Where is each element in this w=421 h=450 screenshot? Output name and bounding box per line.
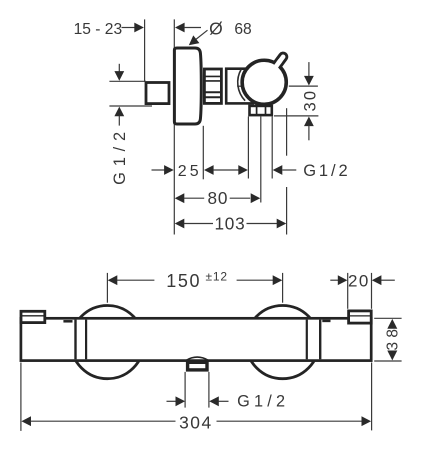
svg-text:68: 68 [234,21,251,38]
escutcheon circle left [71,306,144,379]
body [226,69,253,104]
dim 103 arrow left [175,219,185,229]
ext line escutcheon face [173,19,175,234]
dim 20 arrow left-pointing [372,275,382,285]
wall G1/2 upper shaft [118,64,120,73]
joint right b [319,320,321,360]
ext 150 left [106,273,108,303]
wall pipe [146,83,169,104]
arrow left-pointing [209,396,219,406]
escutcheon circle right [246,306,319,379]
dim 30 arrow down [304,76,314,86]
arrow right-pointing [176,396,186,406]
svg-text:25: 25 [178,163,202,180]
ext line outlet center [260,117,262,203]
adapter rib 1 [204,75,222,77]
svg-text:G1/2: G1/2 [237,393,289,411]
svg-text:150: 150 [166,271,201,291]
dim 103 arrow right [277,219,287,229]
outlet side view [250,106,272,115]
step dash right [322,320,330,323]
ext outlet right [208,372,210,408]
adapter rib 3 [204,91,222,93]
stub merge eraser [271,59,282,71]
ext line outlet left [247,117,249,179]
dim 30 upper shaft [308,62,310,76]
escutcheon Ø68 [174,48,201,124]
dim 38 arrow up [387,319,397,329]
dim 15-23 right arrow [175,23,185,33]
ext line escutcheon right [202,126,204,180]
step dash left [63,320,72,323]
dim 20 arrow right-pointing [338,275,348,285]
outlet dim tail [282,169,296,171]
outlet divider 2 [265,107,267,115]
body end arc [238,69,245,101]
handle circle [242,60,286,104]
svg-text:38: 38 [385,325,402,351]
wall G1/2 arrow down [114,71,124,81]
outlet front view [188,362,207,370]
dim 38 ext bottom [374,360,401,362]
dim 30 arrow up [304,117,314,127]
svg-text:304: 304 [179,413,213,433]
dim 80 arrow left [175,193,185,203]
bar body [21,318,371,360]
wall G1/2 ext line top [109,80,146,82]
handle lever stub [270,52,289,74]
ext line handle front lower [286,187,288,235]
svg-text:15 - 23: 15 - 23 [74,21,123,38]
leader Ø68 [191,30,207,43]
joint right a [306,320,308,360]
dim 15-23 left arrow [122,27,136,29]
dim G1/2 bottom shaft left [167,400,177,402]
ext 150 right [282,273,284,303]
outlet divider 1 [256,107,258,115]
dim 150 arrow right [273,275,283,285]
adapter rib 2 [204,80,222,82]
ext line handle front upper [286,108,288,156]
ext 304 right [371,363,373,431]
outlet dim arrow right-pointing [238,165,248,175]
crescent tick [237,85,241,87]
svg-text:30: 30 [301,89,319,112]
dim 30 ext top [289,85,318,87]
ext 20 right [371,273,373,309]
ext line outlet right [271,117,273,179]
ext 304 left [20,363,22,431]
svg-text:±12: ±12 [206,269,228,283]
dim 25 outer arrow left-pointing [204,165,214,175]
ext 20 left [347,273,349,309]
dim 20 shaft left [330,279,339,281]
dim 304 arrow right [362,416,372,426]
wall G1/2 arrow up [114,107,124,117]
outlet dim arrow left-pointing [273,165,283,175]
dim 30 ext bottom [274,115,318,117]
dim 80 arrow right [251,193,261,203]
dim 30 lower shaft [308,126,310,141]
shared tail line [213,169,239,171]
svg-text:20: 20 [348,272,370,291]
stub left inner line [22,315,45,317]
joint left a [74,320,76,360]
joint left b [85,320,87,360]
outlet bump [186,357,209,360]
ext line 15-23 left (wall face) [144,19,146,82]
dim 25 shaft left [152,169,166,171]
dim 150 arrow left [108,275,118,285]
svg-text:80: 80 [208,188,229,208]
dim 25 arrow right-pointing [164,165,174,175]
stub left [21,311,45,322]
adapter rib 4 [204,96,222,98]
svg-text:Ø: Ø [209,18,223,38]
dim 304 arrow left [21,416,31,426]
dim 38 arrow down [387,351,397,361]
stub right inner line [350,315,372,317]
check valve adapter [204,69,221,103]
ext outlet left [184,372,186,408]
svg-text:G1/2: G1/2 [111,126,129,185]
stub right [349,311,372,323]
dim 38 ext top [374,317,401,319]
svg-text:103: 103 [214,213,245,233]
wall G1/2 ext line bottom [109,105,152,107]
svg-text:G1/2: G1/2 [303,162,350,180]
